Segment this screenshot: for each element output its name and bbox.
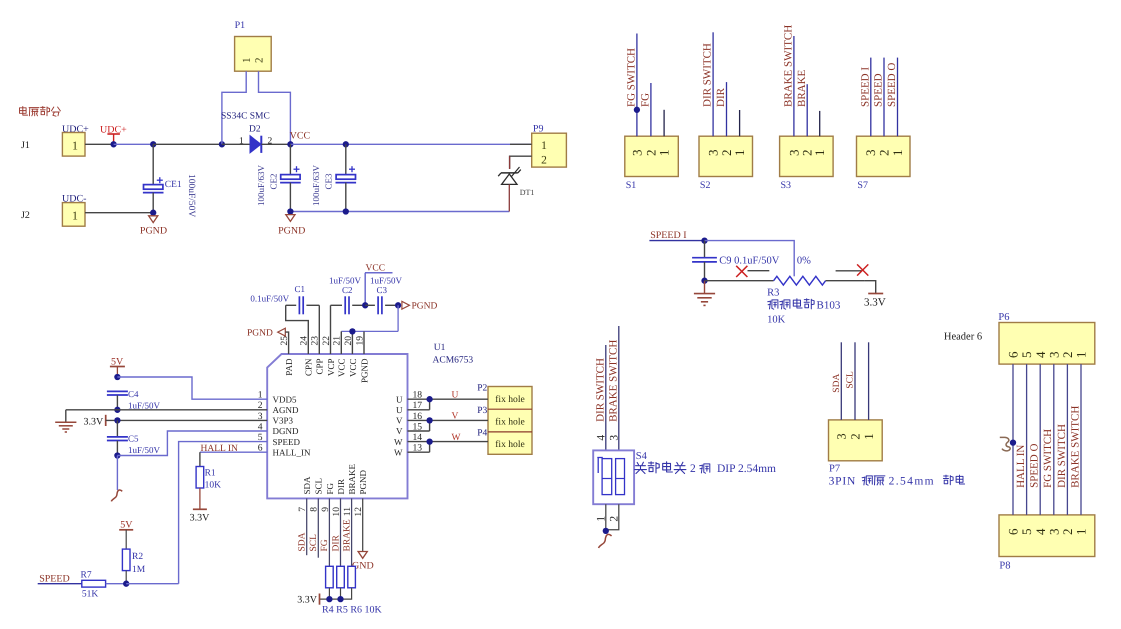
- junction CE2 bottom: [287, 208, 293, 214]
- svg-text:100uF/63V: 100uF/63V: [256, 164, 266, 206]
- svg-text:C9 0.1uF/50V: C9 0.1uF/50V: [719, 256, 780, 267]
- svg-text:PGND: PGND: [278, 226, 305, 237]
- wire S7 pin 3: [870, 58, 872, 137]
- wire P7 pin1: [868, 342, 870, 420]
- wire U1 pins to P4: [408, 442, 489, 453]
- svg-text:10K: 10K: [205, 481, 222, 491]
- power symbol 3.3V (R3): [864, 281, 886, 309]
- svg-text:S4: S4: [636, 451, 648, 462]
- wire PGND bottom rail: [290, 211, 509, 213]
- svg-text:SS34C SMC: SS34C SMC: [221, 112, 270, 122]
- wire U1 pin 8: [317, 498, 319, 557]
- svg-text:BRAKE: BRAKE: [796, 69, 808, 107]
- svg-text:BRAKE SWITCH: BRAKE SWITCH: [1069, 406, 1081, 488]
- switch connector S1: [625, 136, 679, 191]
- svg-text:1uF/50V: 1uF/50V: [128, 401, 161, 411]
- svg-text:SCL: SCL: [309, 534, 319, 552]
- svg-text:U: U: [396, 394, 403, 404]
- junction V: [426, 417, 432, 423]
- wire SPEED I: [649, 240, 704, 242]
- svg-text:PGND: PGND: [412, 302, 438, 312]
- svg-text:C5: C5: [128, 434, 139, 444]
- resistor R1: [196, 467, 221, 491]
- wire P6 to P8: [1039, 364, 1041, 515]
- svg-text:W: W: [394, 437, 403, 447]
- svg-text:VCC: VCC: [348, 359, 358, 378]
- wire P6 to P8: [1026, 364, 1028, 515]
- svg-text:DIR: DIR: [715, 87, 727, 107]
- wire junction to pin5 riser: [126, 583, 178, 585]
- wire S1 pin 3: [636, 34, 638, 137]
- svg-text:PGND: PGND: [247, 329, 273, 339]
- svg-text:DGND: DGND: [273, 426, 299, 436]
- svg-text:R3: R3: [767, 288, 779, 299]
- svg-text:SCL: SCL: [314, 478, 324, 495]
- svg-text:CPP: CPP: [315, 359, 325, 375]
- wire S7 pin 1: [897, 58, 899, 137]
- svg-text:1M: 1M: [132, 565, 146, 575]
- capacitor C5: [107, 420, 161, 455]
- svg-text:HALL_IN: HALL_IN: [273, 447, 311, 457]
- capacitor C2: [329, 276, 365, 315]
- power symbol 3.3V (R1): [190, 488, 211, 524]
- svg-text:C4: C4: [128, 389, 139, 399]
- svg-text:HALL IN: HALL IN: [1015, 445, 1027, 488]
- svg-text:SPEED: SPEED: [873, 73, 885, 107]
- capacitor CE2: [256, 144, 301, 211]
- svg-text:S7: S7: [857, 180, 868, 191]
- junction W: [426, 438, 432, 444]
- svg-text:B103: B103: [817, 300, 841, 312]
- svg-text:SPEED I: SPEED I: [650, 230, 686, 241]
- potentiometer R3: [705, 273, 865, 299]
- svg-text:BRAKE SWITCH: BRAKE SWITCH: [607, 340, 619, 422]
- svg-text:P6: P6: [998, 312, 1009, 323]
- svg-text:VCC: VCC: [366, 263, 386, 273]
- svg-text:D2: D2: [249, 125, 261, 135]
- wire P6 to P8: [1012, 364, 1014, 515]
- wire S1 pin 1: [663, 110, 665, 136]
- power symbol 3.3V (R4-R6): [297, 594, 319, 606]
- connector J2: [21, 194, 86, 227]
- svg-text:C1: C1: [295, 284, 306, 294]
- capacitor C1: [250, 284, 319, 314]
- svg-text:1: 1: [72, 208, 78, 222]
- wire S4 pin1: [605, 504, 607, 531]
- resistor R7: [81, 571, 106, 600]
- wire R7 to junction: [106, 583, 127, 585]
- wire R5 bottom: [340, 588, 342, 599]
- diode D2 SS34C SMC: [221, 112, 290, 153]
- U1 bottom pin numbers: [297, 507, 364, 517]
- power symbol 3.3V (pin3): [84, 415, 106, 428]
- junction CE3 bottom: [343, 208, 349, 214]
- wire S3 pin 1: [819, 111, 821, 136]
- svg-text:S1: S1: [626, 180, 637, 191]
- svg-text:1: 1: [241, 58, 253, 64]
- wire S4 pin2: [606, 504, 619, 530]
- svg-text:3.3V: 3.3V: [190, 513, 211, 524]
- svg-text:C3: C3: [377, 285, 388, 295]
- junction 5V: [114, 374, 120, 380]
- svg-text:FG SWITCH: FG SWITCH: [1042, 429, 1054, 488]
- U1 bottom pin names: [302, 463, 368, 494]
- svg-text:J2: J2: [21, 210, 30, 221]
- svg-text:R2: R2: [132, 552, 143, 562]
- capacitor CE3: [311, 144, 356, 211]
- ground (AGND): [55, 410, 76, 432]
- svg-text:P2: P2: [477, 384, 487, 394]
- svg-text:2: 2: [254, 58, 266, 64]
- svg-text:VDD5: VDD5: [273, 394, 297, 404]
- junction R4: [326, 596, 332, 602]
- wire VCC rail to P9: [290, 143, 531, 145]
- resistor R5: [337, 566, 345, 588]
- connector J1: [21, 124, 89, 156]
- svg-text:P4: P4: [477, 429, 487, 439]
- svg-text:SDA: SDA: [302, 476, 312, 495]
- resistor R2: [122, 549, 145, 584]
- svg-text:BRAKE SWITCH: BRAKE SWITCH: [783, 25, 795, 107]
- svg-text:3: 3: [629, 150, 644, 157]
- ground (C9): [694, 281, 715, 306]
- power symbol VCC: [365, 263, 393, 305]
- junction C9 top: [701, 237, 707, 243]
- fix hole connectors P2 P3 P4: [488, 387, 532, 455]
- wire U1 pin 10: [340, 498, 342, 566]
- svg-text:1: 1: [541, 140, 547, 152]
- svg-text:PGND: PGND: [359, 358, 369, 383]
- svg-text:FG: FG: [320, 539, 330, 551]
- junction VCC caps: [362, 302, 368, 308]
- U1 top pin names: [284, 358, 369, 383]
- svg-text:0%: 0%: [797, 256, 811, 267]
- junction C5 top: [114, 417, 120, 423]
- svg-text:1uF/50V: 1uF/50V: [329, 276, 362, 286]
- wire S3 pin 2: [806, 84, 808, 136]
- junction UDC+: [110, 141, 116, 147]
- svg-text:VCP: VCP: [326, 359, 336, 377]
- junction HALL IN: [1010, 439, 1016, 445]
- connector P1: [235, 20, 272, 71]
- svg-text:W: W: [394, 447, 403, 457]
- connector P9: [532, 124, 567, 168]
- U1 left pin names: [273, 394, 311, 457]
- wire S2 pin 2: [726, 82, 728, 136]
- junction U: [426, 396, 432, 402]
- svg-text:1: 1: [890, 150, 905, 157]
- wire S1 pin 2: [650, 83, 652, 136]
- wire stub with curl (below C5): [111, 456, 122, 502]
- resistor R4: [326, 566, 334, 588]
- wire P1 pin1: [222, 71, 246, 144]
- svg-text:P8: P8: [999, 561, 1010, 572]
- wire 3.3V to pin3: [106, 419, 268, 421]
- power symbol PGND (CE1): [140, 216, 167, 237]
- U1 right pin names: [394, 394, 403, 457]
- junction VCC: [287, 141, 293, 147]
- wire U1 pin 9: [328, 498, 330, 566]
- wire to R3 wiper: [705, 241, 795, 273]
- wire 5V to pin1: [117, 377, 267, 399]
- junction CE3 top: [343, 141, 349, 147]
- capacitor C9: [692, 241, 811, 281]
- connector P7: [829, 420, 883, 475]
- label 可调电阻 B103: [768, 299, 841, 312]
- svg-text:2: 2: [268, 137, 273, 147]
- wire to D2 anode node: [153, 143, 222, 145]
- op-amp U1 ACM6753 body: [267, 343, 473, 498]
- wire HALL_IN pin6: [200, 452, 267, 466]
- svg-text:P7: P7: [829, 464, 840, 475]
- label 3PIN 插针 2.54mm间距: [829, 475, 965, 487]
- wire P7 pin2: [854, 342, 856, 420]
- svg-text:3: 3: [609, 435, 621, 441]
- svg-text:DIR SWITCH: DIR SWITCH: [594, 358, 606, 422]
- no-ERC cross left: [736, 266, 769, 277]
- power symbol 5V (C4): [110, 357, 125, 378]
- svg-text:0.1uF/50V: 0.1uF/50V: [250, 294, 289, 304]
- wire P6 to P8: [1066, 364, 1068, 515]
- wire pin19/21/20 VCC bus: [341, 305, 398, 354]
- svg-text:S2: S2: [700, 180, 711, 191]
- junction AGND row: [114, 407, 120, 413]
- svg-text:Header 6: Header 6: [944, 332, 982, 343]
- svg-text:fix hole: fix hole: [495, 416, 525, 427]
- svg-text:4: 4: [596, 435, 608, 441]
- svg-text:SPEED O: SPEED O: [886, 63, 898, 107]
- wire S7 pin 2: [883, 58, 885, 137]
- svg-text:PGND: PGND: [358, 469, 368, 494]
- wire P1 pin2: [259, 71, 291, 144]
- wire S4 pin4: [605, 345, 607, 450]
- svg-text:2: 2: [541, 155, 547, 167]
- svg-text:DIP 2.54mm: DIP 2.54mm: [717, 463, 776, 475]
- wire C1 left to pin24: [286, 305, 309, 354]
- svg-text:S3: S3: [781, 180, 792, 191]
- svg-text:CE2: CE2: [269, 173, 279, 189]
- capacitor C3: [365, 276, 402, 315]
- svg-text:fix hole: fix hole: [495, 439, 525, 450]
- wire R4 bottom: [328, 588, 330, 599]
- wire J2 to CE1 bottom: [85, 212, 153, 214]
- svg-text:2: 2: [690, 463, 696, 475]
- svg-text:1: 1: [239, 137, 244, 147]
- svg-text:2.54mm: 2.54mm: [889, 476, 935, 488]
- wire P9 pin1 stub: [510, 143, 532, 145]
- svg-text:CPN: CPN: [304, 358, 314, 376]
- wire DGND pin4: [117, 431, 267, 456]
- svg-text:PAD: PAD: [284, 358, 294, 376]
- switch connector S3: [780, 136, 834, 191]
- svg-text:3: 3: [835, 433, 849, 439]
- svg-text:1: 1: [862, 433, 876, 439]
- svg-text:SDA: SDA: [832, 374, 842, 393]
- connector P6: [998, 312, 1094, 364]
- wire C2 left to pin22: [330, 305, 332, 354]
- svg-text:1uF/50V: 1uF/50V: [370, 276, 403, 286]
- svg-text:DIR: DIR: [331, 534, 341, 551]
- wire J1 to node: [85, 143, 114, 145]
- svg-text:W: W: [452, 433, 461, 443]
- wire U1 pin 7: [306, 498, 308, 555]
- svg-text:SPEED: SPEED: [39, 574, 70, 585]
- svg-text:P1: P1: [235, 20, 246, 31]
- wire U1 pins to P2: [408, 399, 489, 410]
- svg-text:3PIN: 3PIN: [829, 476, 856, 488]
- section label 电源部分: [20, 107, 61, 117]
- wire U1 pin 12: [362, 498, 364, 551]
- junction CE1 top: [150, 141, 156, 147]
- svg-text:FG: FG: [640, 93, 652, 107]
- svg-text:U1: U1: [434, 343, 446, 353]
- svg-text:DT1: DT1: [520, 188, 535, 197]
- svg-text:1: 1: [812, 150, 827, 157]
- wire AGND pin2: [66, 409, 267, 411]
- wire SPEED: [38, 583, 82, 585]
- svg-text:1: 1: [657, 150, 672, 157]
- power flag PGND (right): [402, 301, 438, 311]
- svg-text:P3: P3: [477, 406, 487, 416]
- svg-text:1: 1: [732, 150, 747, 157]
- net labels SDA SCL FG DIR BRAKE (bottom): [298, 519, 353, 551]
- svg-text:3.3V: 3.3V: [84, 417, 105, 428]
- U1 left pin numbers: [258, 390, 263, 454]
- svg-text:V: V: [396, 426, 403, 436]
- svg-text:U: U: [452, 390, 459, 400]
- svg-text:100uF/50V: 100uF/50V: [186, 174, 196, 217]
- svg-text:CE1: CE1: [165, 180, 182, 190]
- resistor R6: [348, 566, 356, 588]
- wire C1 right to pin23: [318, 305, 320, 354]
- svg-text:1: 1: [1074, 352, 1089, 359]
- curl (S4): [599, 534, 612, 548]
- svg-text:SCL: SCL: [846, 371, 856, 389]
- U1 right pin numbers: [413, 390, 423, 454]
- wire U1 pin 11: [351, 498, 353, 566]
- svg-text:FG: FG: [325, 482, 335, 494]
- svg-text:51K: 51K: [82, 590, 99, 600]
- wire U1 pins to P3: [408, 420, 489, 431]
- svg-text:J1: J1: [21, 140, 30, 151]
- wire S2 pin 1: [739, 110, 741, 136]
- svg-text:2: 2: [848, 433, 862, 439]
- svg-text:CE3: CE3: [324, 173, 334, 190]
- svg-text:V: V: [452, 412, 459, 422]
- svg-text:1uF/50V: 1uF/50V: [128, 445, 161, 455]
- svg-text:PGND: PGND: [140, 226, 167, 237]
- capacitor CE1: [143, 144, 196, 217]
- svg-text:5V: 5V: [120, 520, 133, 531]
- wire R6 bottom: [320, 588, 352, 599]
- junction R5: [337, 596, 343, 602]
- capacitor C4: [107, 389, 161, 411]
- svg-text:100uF/63V: 100uF/63V: [311, 164, 321, 206]
- svg-text:SDA: SDA: [298, 532, 308, 551]
- svg-text:U: U: [396, 405, 403, 415]
- svg-text:SPEED O: SPEED O: [1029, 444, 1041, 488]
- junction pin20: [349, 328, 355, 334]
- label 拨码开关 2位 DIP 2.54mm: [635, 462, 776, 475]
- wire P7 pin3: [840, 342, 842, 420]
- connector P8: [999, 515, 1095, 572]
- svg-text:VCC: VCC: [290, 131, 311, 142]
- junction C9 bottom: [701, 278, 707, 284]
- svg-text:3.3V: 3.3V: [297, 595, 318, 606]
- wire SPEED to pin5: [179, 442, 268, 584]
- power flag PGND (left, pin25): [247, 328, 289, 354]
- svg-text:R7: R7: [81, 571, 92, 581]
- wire S2 pin 3: [712, 32, 714, 136]
- svg-text:R4 R5 R6 10K: R4 R5 R6 10K: [322, 605, 383, 616]
- wire P6 to P8: [1053, 364, 1055, 515]
- svg-text:V: V: [396, 416, 403, 426]
- svg-text:AGND: AGND: [273, 405, 299, 415]
- switch connector S2: [699, 136, 753, 191]
- svg-text:DIR SWITCH: DIR SWITCH: [702, 43, 714, 107]
- svg-text:FG SWITCH: FG SWITCH: [626, 48, 638, 107]
- power symbol PGND (rail): [278, 215, 305, 237]
- TVS diode DT1: [498, 156, 534, 211]
- wire P6 to P8: [1080, 364, 1082, 515]
- junction R2/SPEED: [123, 581, 129, 587]
- power symbol 5V (R2): [119, 520, 133, 550]
- wire S3 pin 3: [793, 36, 795, 136]
- net label UDC+ (red power flag): [100, 125, 127, 145]
- power symbol GND (pin12): [352, 552, 374, 572]
- switch connector S7: [857, 136, 911, 191]
- wire: [114, 143, 154, 145]
- junction PGND flag: [395, 302, 401, 308]
- svg-text:DIR: DIR: [336, 479, 346, 495]
- svg-text:V3P3: V3P3: [273, 416, 294, 426]
- U1 top pin numbers: [279, 336, 365, 346]
- svg-text:fix hole: fix hole: [495, 394, 525, 405]
- DIP switch S4: [593, 450, 634, 504]
- svg-text:R1: R1: [205, 469, 216, 479]
- svg-text:3.3V: 3.3V: [864, 297, 886, 309]
- svg-text:BRAKE: BRAKE: [342, 519, 352, 551]
- svg-text:C2: C2: [342, 285, 353, 295]
- svg-text:SPEED: SPEED: [273, 437, 301, 447]
- svg-text:VCC: VCC: [337, 359, 347, 378]
- svg-text:1: 1: [72, 138, 78, 152]
- junction DGND row: [114, 452, 120, 458]
- junction CE1 bottom: [150, 210, 156, 216]
- svg-text:ACM6753: ACM6753: [433, 356, 474, 366]
- wire P9 pin2: [510, 156, 532, 169]
- curl (P6 wire): [1000, 437, 1010, 450]
- svg-text:10K: 10K: [767, 315, 786, 326]
- svg-text:SPEED I: SPEED I: [859, 67, 871, 107]
- junction on S1 pin 3: [634, 107, 640, 113]
- wire S4 pin3: [618, 326, 620, 450]
- no-ERC cross right: [836, 264, 869, 275]
- junction S4: [603, 528, 609, 534]
- svg-text:BRAKE: BRAKE: [347, 463, 357, 494]
- junction P1/D2: [219, 141, 225, 147]
- svg-text:1: 1: [1074, 529, 1089, 536]
- svg-text:DIR SWITCH: DIR SWITCH: [1056, 424, 1068, 488]
